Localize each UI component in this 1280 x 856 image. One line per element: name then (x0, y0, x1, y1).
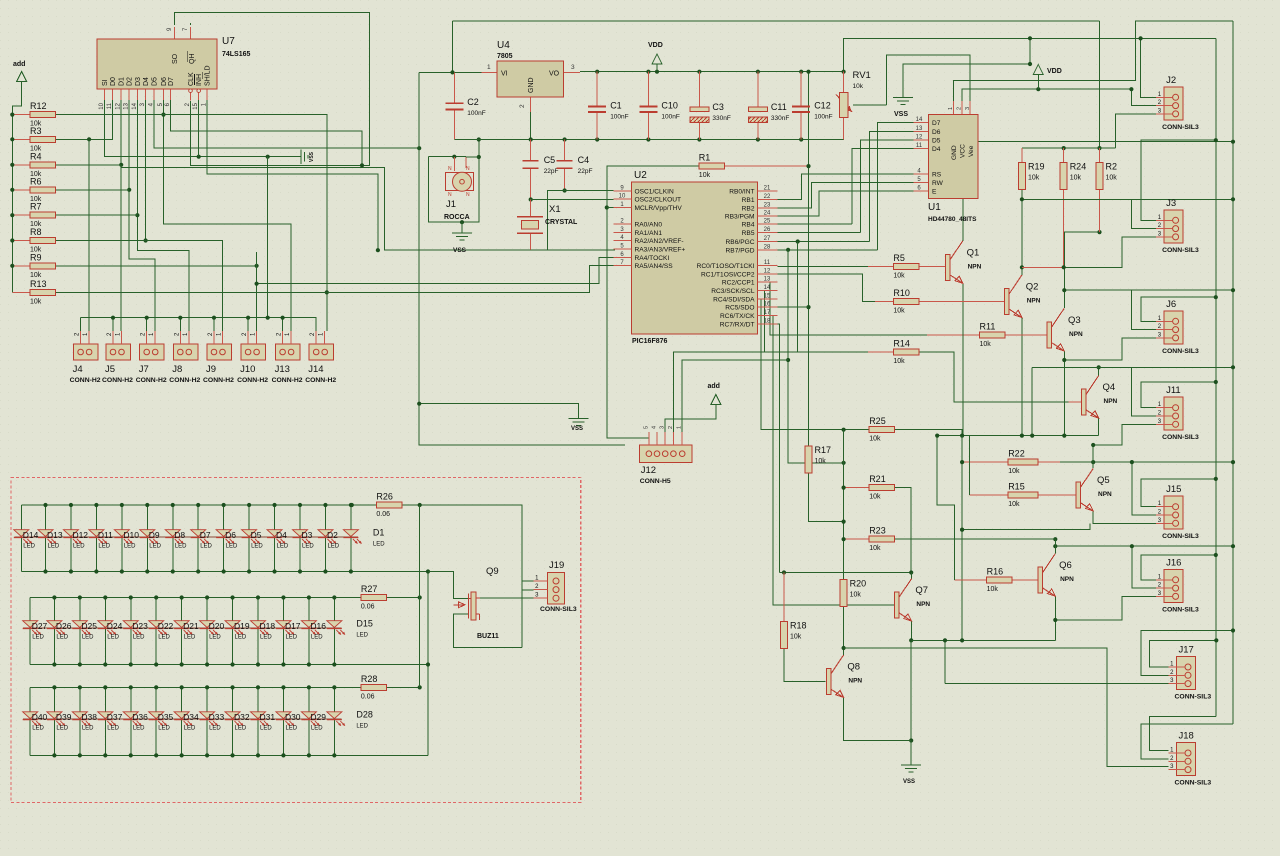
junction row2 top 4 (129, 595, 133, 599)
wire Q5 emitter gnd (962, 523, 1090, 529)
junction PGC tap (796, 239, 800, 243)
svg-text:J6: J6 (1166, 299, 1176, 310)
resistor R3 (30, 126, 56, 153)
wire RC4 to R25 (761, 299, 869, 430)
wire R7 left lead (12, 214, 30, 216)
wire R6 right lead (56, 189, 130, 191)
junction J1 ring right mid (477, 155, 481, 159)
svg-text:11: 11 (107, 102, 113, 109)
U1 pin stub VCC (961, 101, 963, 114)
svg-text:RA3/AN3/VREF+: RA3/AN3/VREF+ (635, 247, 686, 254)
svg-text:CONN-H2: CONN-H2 (70, 377, 101, 384)
junction vdd rail C11 (756, 70, 760, 74)
junction row3 bot 5 (154, 753, 158, 757)
svg-text:LED: LED (373, 542, 385, 548)
junction gnd rail join (960, 638, 964, 642)
wire pullup rail (1022, 147, 1116, 149)
junction row1 top 12 (323, 503, 327, 507)
ground VSS U1 (893, 98, 913, 105)
wire R18 top line (780, 572, 912, 574)
svg-text:Q4: Q4 (1103, 382, 1116, 393)
junction row3 bot 10 (281, 753, 285, 757)
svg-text:C11: C11 (771, 102, 787, 112)
wire Q4 emitter (1098, 418, 1100, 436)
wire J17p3 line (945, 683, 1169, 685)
junction outer 141 (1231, 140, 1235, 144)
wire row3 col 6 (181, 687, 183, 755)
wire x1096 drop (1099, 21, 1101, 148)
svg-text:J7: J7 (139, 364, 149, 375)
svg-text:LED: LED (277, 544, 289, 550)
svg-text:Q1: Q1 (967, 247, 980, 258)
svg-text:RC6/TX/CK: RC6/TX/CK (720, 313, 755, 320)
svg-text:D22: D22 (158, 621, 174, 631)
svg-text:D10: D10 (123, 530, 139, 540)
resistor R18 (781, 621, 807, 649)
wire J1 gnd lead (461, 222, 463, 233)
wire J16p1 (1141, 555, 1216, 580)
svg-text:LED: LED (48, 544, 60, 550)
wire J2p3 (1116, 114, 1157, 148)
wire rail21 (453, 20, 1100, 22)
wire VDD arrow lead (656, 64, 658, 72)
junction row1 bot 13 (349, 569, 353, 573)
svg-text:LED: LED (302, 544, 314, 550)
svg-text:RB5: RB5 (742, 230, 755, 237)
svg-text:U4: U4 (497, 40, 510, 51)
wire vss-vdd link (1029, 38, 1031, 64)
wire outer vert (1232, 21, 1234, 724)
svg-text:SI: SI (102, 79, 109, 86)
wire row2 bottom rail (30, 664, 428, 666)
wire row2 col 8 (232, 598, 234, 665)
svg-text:R16: R16 (987, 567, 1004, 577)
wire Q7 emitter (911, 621, 913, 640)
resistor R27 (361, 584, 387, 611)
LED D8 (165, 530, 187, 550)
wire row1 col 11 (299, 505, 301, 572)
wire Q4 base lead (1069, 401, 1082, 403)
junction row1 top 10 (272, 503, 276, 507)
wire R10 left lead (875, 301, 893, 303)
wire R13 row (56, 291, 327, 293)
svg-text:D2: D2 (327, 530, 338, 540)
svg-text:R24: R24 (1070, 162, 1087, 172)
junction emitter rail 962.1 (960, 434, 964, 438)
wire VDD up (844, 38, 1216, 71)
svg-text:10k: 10k (869, 436, 881, 443)
wire RA4 line (257, 257, 615, 283)
svg-text:3: 3 (660, 426, 666, 429)
svg-text:RA2/AN2/VREF-: RA2/AN2/VREF- (635, 238, 684, 245)
svg-text:LED: LED (82, 635, 94, 641)
wire row3 top rail (30, 686, 334, 688)
resistor R22 (1008, 449, 1038, 476)
svg-text:26: 26 (764, 227, 771, 233)
U4 pin VO stub (564, 71, 580, 73)
junction Q8 emit join (909, 738, 913, 742)
junction row3 bot 7 (205, 753, 209, 757)
svg-text:J2: J2 (1166, 75, 1176, 86)
junction rail drop join (266, 155, 270, 159)
svg-text:R11: R11 (980, 321, 996, 331)
U1 pin stub VEE (969, 101, 971, 114)
wire cap leadb 648.4 (647, 112, 649, 140)
wire row1 col 3 (95, 505, 97, 572)
LED D40 (23, 712, 48, 732)
LED D39 (47, 712, 72, 732)
svg-text:QH: QH (189, 54, 196, 65)
LED D10 (114, 530, 139, 550)
svg-text:LED: LED (356, 724, 368, 730)
svg-text:C12: C12 (814, 101, 831, 111)
svg-text:C5: C5 (544, 155, 556, 165)
svg-text:LED: LED (226, 544, 238, 550)
resistor R14 (893, 338, 919, 365)
wire row1 col 10 (274, 505, 276, 572)
junction row3 top 2 (78, 685, 82, 689)
junction row3 bot 4 (129, 753, 133, 757)
svg-text:VSS: VSS (309, 151, 315, 162)
junction row2 bot 12 (332, 662, 336, 666)
connector J18 (1169, 731, 1212, 787)
power VDD U1 (1033, 65, 1061, 76)
U7 pin stub D1 (120, 89, 122, 101)
LED D35 (149, 712, 174, 732)
svg-text:RC1/T1OSI/CCP2: RC1/T1OSI/CCP2 (701, 271, 755, 278)
connector J7 (136, 331, 167, 384)
junction rail2 428 (426, 662, 430, 666)
wire row3 col 2 (79, 687, 81, 755)
resistor R17 (805, 445, 831, 473)
svg-text:3: 3 (965, 107, 971, 110)
junction row3 top 9 (256, 685, 260, 689)
U7 pin stub INH (198, 89, 200, 101)
power add J12 (708, 383, 721, 405)
svg-text:HD44780_48ITS: HD44780_48ITS (928, 216, 977, 223)
wire row2 col 1 (53, 598, 55, 665)
svg-text:R13: R13 (30, 279, 47, 289)
wire pin2 rail main (81, 318, 317, 331)
svg-text:D38: D38 (81, 712, 97, 722)
wire row1 left edge (20, 505, 22, 572)
svg-text:GND: GND (528, 77, 535, 93)
wire J15p2 drop (1132, 462, 1156, 515)
svg-text:Q8: Q8 (847, 662, 860, 673)
wire RC0 to R5 (778, 265, 869, 267)
capacitor C3 (690, 102, 731, 122)
wire J1 ring left (428, 140, 479, 223)
LED D9 (140, 530, 162, 550)
svg-text:INH: INH (196, 74, 203, 86)
svg-text:J1: J1 (446, 199, 456, 210)
svg-text:CONN-SIL3: CONN-SIL3 (1162, 348, 1199, 355)
junction J15p1 inner (1214, 477, 1218, 481)
resistor R28 (361, 674, 387, 701)
svg-text:LED: LED (285, 726, 297, 732)
svg-text:CONN-H2: CONN-H2 (237, 377, 268, 384)
resistor R26 (376, 492, 402, 519)
junction R28 dot (418, 685, 422, 689)
svg-text:LED: LED (209, 726, 221, 732)
LED D32 (225, 712, 250, 732)
wire row2 col 3 (104, 598, 106, 665)
junction D2 R6 join (127, 188, 131, 192)
resistor R16 (987, 567, 1013, 594)
wire R14 left lead (868, 351, 893, 353)
svg-text:E: E (932, 188, 937, 195)
IC U4 7805 (487, 40, 575, 108)
wire J19 p2 feed (522, 589, 533, 591)
wire wiper to VEE (886, 55, 970, 105)
junction SI J1c join (452, 155, 456, 159)
svg-text:CONN-H2: CONN-H2 (102, 377, 133, 384)
junction R12 R13 join (325, 290, 329, 294)
junction rail drop bottom (266, 316, 270, 320)
svg-text:BUZ11: BUZ11 (477, 633, 499, 640)
junction gnd3 join (417, 402, 421, 406)
row1 led line (14, 536, 358, 538)
wire pin2 drop 113 (112, 318, 114, 331)
svg-text:CONN-H2: CONN-H2 (136, 377, 167, 384)
svg-text:D37: D37 (107, 712, 123, 722)
svg-text:10k: 10k (1070, 175, 1082, 182)
wire row1 col 7 (197, 505, 199, 572)
transistor Q2 (1005, 275, 1041, 318)
svg-text:10k: 10k (980, 341, 992, 348)
svg-text:LED: LED (184, 726, 196, 732)
wire RV1 top lead (843, 72, 845, 93)
svg-text:NPN: NPN (968, 263, 982, 270)
wire R6 left lead (12, 189, 30, 191)
junction row1 bot 9 (247, 569, 251, 573)
svg-text:C2: C2 (467, 97, 479, 107)
U1 pin stub GND (953, 101, 955, 114)
junction emitter rail 1064.3 (1062, 434, 1066, 438)
svg-text:15: 15 (764, 293, 771, 299)
junction pin2 rail 214 (212, 316, 216, 320)
svg-text:LED: LED (32, 726, 44, 732)
wire INH col (198, 100, 200, 157)
junction row2 top 8 (230, 595, 234, 599)
junction row1 top 6 (171, 503, 175, 507)
svg-text:R20: R20 (850, 579, 867, 589)
resistor R23 (869, 526, 895, 553)
wire row1 col 6 (172, 505, 174, 572)
wire row3 col 4 (130, 687, 132, 755)
svg-text:D13: D13 (47, 530, 63, 540)
svg-text:10k: 10k (30, 272, 42, 279)
wire U1 D6 wire (869, 132, 913, 242)
junction row1 r26 (350, 503, 354, 507)
svg-text:D25: D25 (81, 621, 97, 631)
svg-text:CONN-SIL3: CONN-SIL3 (1175, 780, 1212, 787)
wire D3 col (137, 100, 188, 331)
wire pin2 drop 214 (213, 318, 215, 331)
junction RC5 join (806, 305, 810, 309)
junction pin2 rail 113 (111, 316, 115, 320)
resistor R12 (30, 101, 56, 128)
wire Q9 gate feed (428, 572, 469, 599)
wire J11p2 drop (1132, 367, 1156, 416)
LED D28 (327, 712, 345, 726)
junction row2 bot 1 (52, 662, 56, 666)
junction J4p1 on R3 (87, 137, 91, 141)
wire C4 bottom (564, 168, 566, 190)
svg-text:D20: D20 (209, 621, 225, 631)
svg-text:25: 25 (764, 219, 771, 225)
wire C2 top lead (453, 72, 455, 103)
transistor Q5 (1076, 469, 1112, 512)
svg-text:R21: R21 (869, 474, 886, 484)
wire X1 loop (531, 191, 614, 251)
junction row1 top 1 (43, 503, 47, 507)
LED D31 (251, 712, 276, 732)
svg-text:CONN-H2: CONN-H2 (203, 377, 234, 384)
svg-text:RC4/SDI/SDA: RC4/SDI/SDA (713, 296, 755, 303)
junction row1 top 8 (222, 503, 226, 507)
svg-text:D3: D3 (302, 530, 313, 540)
resistor R19 (1019, 162, 1045, 190)
wire row2 col 4 (130, 598, 132, 665)
svg-text:17: 17 (764, 310, 771, 316)
svg-text:10k: 10k (1028, 175, 1040, 182)
svg-text:D18: D18 (260, 621, 276, 631)
junction J2p2 vcc (1129, 87, 1133, 91)
junction D3 R7 join (135, 213, 139, 217)
svg-text:U1: U1 (928, 202, 941, 213)
junction R27 dot (418, 595, 422, 599)
svg-text:CONN-SIL3: CONN-SIL3 (1162, 434, 1199, 441)
junction vdd rail VDDarr (655, 70, 659, 74)
svg-text:D12: D12 (72, 530, 88, 540)
junction vdd rail C1 (595, 70, 599, 74)
resistor R2 (1096, 162, 1117, 190)
wire inner vert down (1215, 38, 1217, 716)
IC U7 74LS165 (97, 27, 251, 110)
svg-text:RC2/CCP1: RC2/CCP1 (722, 280, 755, 287)
wire Q9 drain row (480, 597, 540, 599)
svg-text:R9: R9 (30, 252, 42, 262)
junction row3 bot 8 (230, 753, 234, 757)
wire gnd3 lead (419, 404, 578, 419)
svg-text:12: 12 (116, 102, 122, 109)
LED D12 (63, 530, 88, 550)
connector J1 ROCCA (444, 166, 474, 221)
wire cap lead 648.4 (647, 72, 649, 107)
svg-text:R28: R28 (361, 674, 378, 684)
svg-text:R6: R6 (30, 176, 42, 186)
svg-text:R12: R12 (30, 101, 47, 111)
U7 pin stub QH (190, 27, 192, 39)
svg-text:J19: J19 (549, 560, 564, 571)
wire cap lead 597.2 (596, 72, 598, 107)
junction pin2 rail 282.6 (281, 316, 285, 320)
junction rail1 428 (426, 569, 430, 573)
svg-text:2: 2 (668, 426, 674, 429)
junction pin2 rail 146.7 (145, 316, 149, 320)
junction link top (1028, 36, 1032, 40)
svg-text:LED: LED (56, 635, 68, 641)
wire R18 bottom (784, 648, 825, 682)
svg-text:RV1: RV1 (853, 70, 871, 81)
svg-text:J9: J9 (206, 364, 216, 375)
U1 pin stub RS (914, 173, 929, 175)
transistor Q7 (894, 579, 930, 622)
junction row3 top 4 (129, 685, 133, 689)
svg-text:D26: D26 (56, 621, 72, 631)
svg-text:R19: R19 (1028, 162, 1045, 172)
transistor Q9 (BUZ11) (453, 566, 499, 640)
junction left rail R7 (10, 213, 14, 217)
wire R15 right (1038, 494, 1076, 496)
wire R13 ext to RA5 (327, 266, 615, 293)
junction row3 top 3 (103, 685, 107, 689)
wire J18p1 (1149, 717, 1215, 751)
svg-text:10: 10 (619, 194, 626, 200)
wire Q1 collector (963, 142, 1233, 241)
svg-text:D5: D5 (932, 137, 941, 144)
svg-text:3: 3 (571, 64, 575, 71)
svg-text:Vee: Vee (968, 145, 975, 157)
svg-text:CONN-SIL3: CONN-SIL3 (1162, 247, 1199, 254)
wire J11p1 (1141, 382, 1216, 408)
svg-text:R10: R10 (893, 288, 910, 298)
svg-text:10: 10 (99, 102, 105, 109)
junction J11p3 q5 (1091, 443, 1095, 447)
svg-text:15: 15 (193, 102, 199, 109)
svg-text:NPN: NPN (1069, 331, 1083, 338)
svg-text:LED: LED (82, 726, 94, 732)
U7 pin stub CLK (190, 89, 192, 101)
svg-text:LED: LED (73, 544, 85, 550)
svg-text:LED: LED (124, 544, 136, 550)
wire row3 col 11 (308, 687, 310, 755)
junction J17p2 outer (1231, 628, 1235, 632)
svg-text:J8: J8 (172, 364, 182, 375)
wire row3 rail to R28 (336, 686, 361, 688)
svg-text:LED: LED (23, 544, 35, 550)
svg-text:R7: R7 (30, 202, 42, 212)
wire R1 left (607, 166, 699, 438)
svg-text:OSC2/CLKOUT: OSC2/CLKOUT (635, 197, 682, 204)
wire row2 left edge (29, 598, 31, 665)
svg-text:VSS: VSS (571, 426, 583, 432)
wire J12 pin1 wire (682, 360, 788, 432)
wire J11p3 (1093, 424, 1156, 445)
connector J11 (1156, 385, 1199, 441)
junction J15p2 tap (1130, 460, 1134, 464)
U7 pin stub D2 (128, 89, 130, 101)
svg-text:D23: D23 (132, 621, 148, 631)
wire emitter down (961, 436, 963, 641)
svg-text:J14: J14 (308, 364, 323, 375)
junction pin2 rail 180.3 (178, 316, 182, 320)
LED D24 (98, 621, 123, 641)
U7 pin stub D3 (136, 89, 138, 101)
svg-text:D14: D14 (23, 530, 39, 540)
junction D5 VIret join (417, 146, 421, 150)
svg-text:N: N (466, 192, 470, 198)
wire bus 843b (843, 606, 845, 648)
junction J1 ring right upper (477, 137, 481, 141)
junction pin2 rail 248.1 (246, 316, 250, 320)
svg-text:27: 27 (764, 236, 771, 242)
LED D21 (174, 621, 199, 641)
svg-text:D28: D28 (356, 710, 373, 720)
junction D1 R4 join (119, 163, 123, 167)
junction row1 bot 11 (298, 569, 302, 573)
